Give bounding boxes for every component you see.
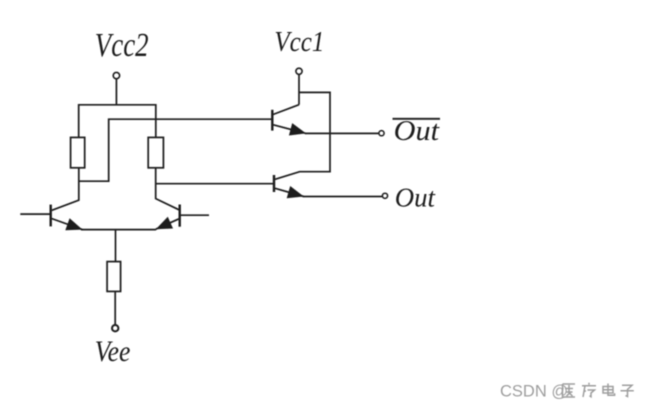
terminal Outbar	[379, 131, 384, 136]
watermark glyph dian	[603, 384, 615, 396]
wire RC1 bottom to Q1 collector	[52, 168, 79, 211]
transistor Q2	[156, 205, 209, 230]
watermark glyph yi	[563, 384, 576, 397]
resistor RC1	[71, 137, 85, 167]
resistor RC2	[148, 137, 163, 167]
wire Vcc2 rail with resistor top leads	[79, 105, 156, 138]
terminal Vcc2	[113, 72, 119, 78]
transistor Q3	[272, 105, 306, 136]
transistor Q1	[20, 205, 82, 231]
terminal Out	[382, 193, 387, 198]
svg-text:Out: Out	[395, 181, 437, 212]
watermark glyph zi	[621, 385, 634, 396]
terminal Vcc1	[296, 68, 302, 74]
resistor RE	[107, 262, 121, 292]
wire RE to Vee	[114, 291, 116, 324]
wire Vcc1 branch to Q4 collector	[275, 92, 330, 179]
terminal Vee	[112, 325, 118, 331]
svg-text:Vcc2: Vcc2	[95, 27, 149, 64]
wire RC2 bottom to Q2 collector	[156, 168, 179, 210]
watermark glyph liao	[582, 383, 596, 397]
svg-text:Vcc1: Vcc1	[274, 26, 324, 58]
wire tail down	[115, 230, 117, 262]
svg-text:Out: Out	[394, 116, 441, 147]
label Outbar	[393, 116, 441, 147]
wire node A to Q3 base	[79, 119, 273, 181]
svg-text:Vee: Vee	[95, 336, 131, 368]
wire Vcc1 to Q3 collector	[298, 74, 300, 104]
wire emitter join	[81, 229, 156, 231]
wire node B to Q4 base	[156, 183, 274, 185]
svg-text:CSDN @: CSDN @	[500, 383, 568, 401]
wire Q4 emitter to Out	[303, 196, 382, 198]
wire Vcc2 drop	[115, 79, 117, 105]
transistor Q4	[274, 175, 304, 198]
wire Q3 emitter to Outbar	[305, 132, 379, 134]
